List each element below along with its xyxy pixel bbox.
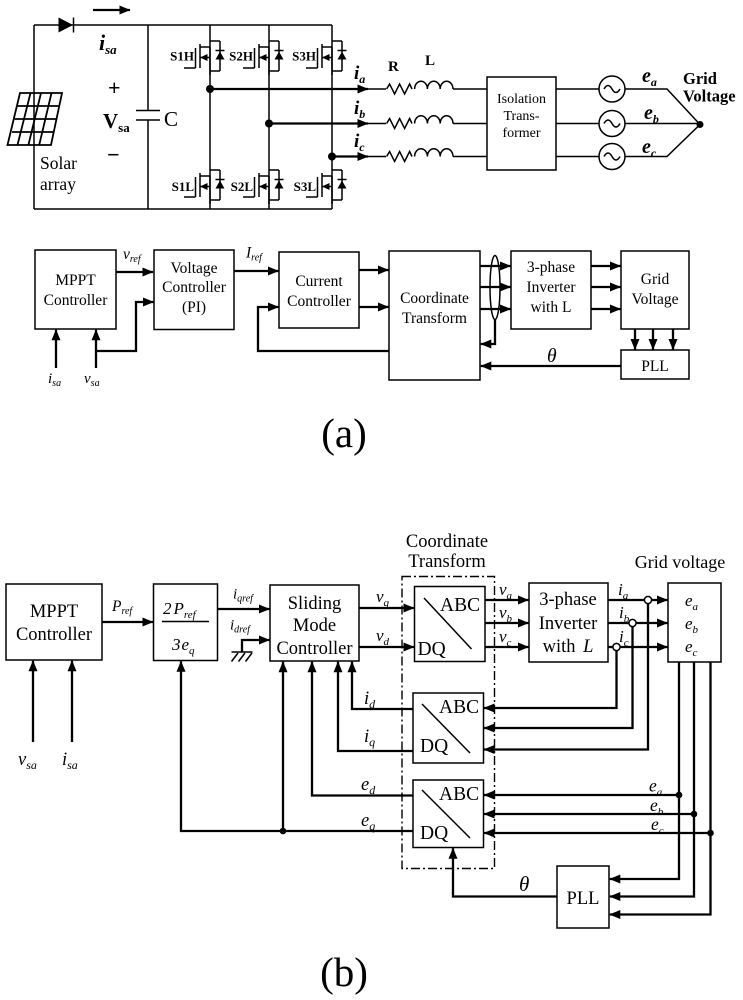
svg-text:Controller: Controller bbox=[162, 279, 227, 296]
svg-text:Coordinate: Coordinate bbox=[400, 290, 469, 307]
resistor phase a bbox=[387, 84, 412, 94]
svg-text:Controller: Controller bbox=[287, 293, 352, 310]
arrow MPPT to Voltage Controller bbox=[116, 271, 153, 273]
svg-text:ABC: ABC bbox=[439, 784, 479, 805]
svg-text:Pref: Pref bbox=[111, 598, 133, 617]
svg-text:Inverter: Inverter bbox=[539, 614, 598, 634]
svg-text:vb: vb bbox=[499, 603, 513, 625]
label i_sa bbox=[99, 30, 117, 57]
svg-text:θ: θ bbox=[547, 346, 557, 367]
AC source e_b bbox=[599, 111, 625, 137]
wire phase a with arrow bbox=[210, 88, 386, 90]
transistor S1H bbox=[184, 41, 225, 75]
transistor S1L bbox=[184, 170, 225, 204]
block 3-phase Inverter with L (a) bbox=[511, 251, 591, 329]
svg-text:S1L: S1L bbox=[172, 179, 195, 194]
svg-text:Trans-: Trans- bbox=[503, 109, 539, 124]
label R bbox=[388, 59, 399, 75]
svg-text:Iref: Iref bbox=[245, 245, 263, 264]
svg-text:iq: iq bbox=[364, 727, 375, 749]
label e_b (b) bbox=[650, 795, 664, 818]
arrow Grid Voltage to PLL 1 bbox=[634, 329, 636, 350]
wire source b to node bbox=[625, 123, 700, 125]
svg-text:with L: with L bbox=[531, 299, 572, 316]
node phase b bbox=[265, 120, 273, 128]
label i_sa (a) bbox=[48, 371, 61, 389]
svg-text:S2L: S2L bbox=[231, 179, 254, 194]
svg-text:PLL: PLL bbox=[641, 358, 669, 375]
label i_c (b) bbox=[619, 627, 629, 649]
label i_b (b) bbox=[619, 603, 630, 625]
node e_q branch bbox=[280, 828, 287, 835]
svg-text:Coordinate: Coordinate bbox=[406, 532, 488, 552]
arrow Current Controller to Coordinate Transform lower bbox=[359, 306, 389, 308]
svg-text:Grid: Grid bbox=[641, 271, 670, 288]
label L bbox=[425, 53, 435, 69]
transistor S3L bbox=[306, 170, 347, 204]
label i_sa (b) bbox=[62, 750, 78, 772]
wire: top rail bbox=[34, 24, 332, 26]
AC source e_c bbox=[599, 144, 625, 170]
svg-text:3-phase: 3-phase bbox=[539, 590, 597, 610]
svg-text:vq: vq bbox=[376, 587, 390, 609]
label v_q bbox=[376, 587, 390, 609]
wire: DC-link left vertical bbox=[33, 25, 35, 209]
label e_d bbox=[361, 775, 376, 797]
svg-text:eb: eb bbox=[685, 614, 699, 636]
label S2H bbox=[229, 49, 253, 64]
transistor S2L bbox=[243, 170, 284, 204]
wire i_c tap to ABC/DQ2 bbox=[484, 651, 617, 709]
wire c to transformer bbox=[453, 156, 487, 158]
svg-text:Vsa: Vsa bbox=[103, 109, 130, 135]
svg-text:Current: Current bbox=[295, 273, 343, 290]
svg-text:former: former bbox=[502, 126, 540, 141]
label i_a (b) bbox=[618, 580, 629, 602]
label C bbox=[164, 107, 178, 131]
svg-text:R: R bbox=[388, 59, 399, 75]
arrow v_sa input (a) bbox=[95, 330, 97, 368]
arrow Current Controller to Coordinate Transform upper bbox=[359, 269, 389, 271]
svg-text:ic: ic bbox=[354, 131, 365, 154]
arrow inverter to Grid Voltage b bbox=[591, 286, 621, 288]
dashed box Coordinate Transform (b) bbox=[402, 577, 495, 869]
svg-text:Transform: Transform bbox=[408, 552, 486, 572]
block 2Pref/3eq bbox=[154, 584, 218, 661]
wire transformer to source b bbox=[556, 123, 599, 125]
svg-text:DQ: DQ bbox=[420, 823, 448, 844]
svg-text:ec: ec bbox=[685, 637, 698, 659]
label v_sa (b) bbox=[18, 750, 37, 772]
svg-text:ABC: ABC bbox=[440, 595, 480, 616]
wire b to transformer bbox=[453, 123, 487, 125]
node grid bbox=[697, 121, 704, 128]
block PLL (a) bbox=[621, 350, 689, 379]
wire e_b to ABC/DQ3 bbox=[484, 813, 694, 815]
arrow Grid Voltage to PLL 3 bbox=[672, 329, 674, 350]
label e_a top bbox=[642, 65, 657, 89]
wire i_q to Sliding Mode bbox=[338, 662, 413, 751]
svg-text:Controller: Controller bbox=[276, 639, 352, 659]
block Grid voltage e_a e_b e_c bbox=[668, 583, 721, 662]
node e_c junction bbox=[707, 830, 714, 837]
inductor phase a bbox=[415, 81, 453, 89]
inductor phase c bbox=[415, 149, 453, 157]
arrow ABC/DQ1 to inverter v_a bbox=[485, 599, 529, 601]
arrow v_sa input (b) bbox=[32, 661, 34, 742]
arrow fraction to Sliding Mode i_qref bbox=[218, 608, 270, 610]
arrow inverter to Grid Voltage c bbox=[591, 308, 621, 310]
svg-text:vsa: vsa bbox=[84, 371, 100, 389]
label S2L bbox=[231, 179, 254, 194]
svg-text:iqref: iqref bbox=[233, 587, 254, 605]
svg-text:Isolation: Isolation bbox=[497, 92, 546, 107]
svg-text:S1H: S1H bbox=[170, 49, 194, 64]
svg-text:(PI): (PI) bbox=[182, 299, 206, 316]
label S3L bbox=[294, 179, 317, 194]
wire theta PLL to Coordinate Transform bbox=[481, 365, 621, 367]
svg-text:array: array bbox=[40, 174, 76, 194]
label e_q bbox=[361, 811, 375, 833]
svg-text:S2H: S2H bbox=[229, 49, 253, 64]
svg-text:Solar: Solar bbox=[40, 153, 77, 173]
arrow inverter to grid i_b bbox=[608, 622, 668, 624]
svg-text:θ: θ bbox=[519, 872, 529, 896]
svg-text:vref: vref bbox=[123, 246, 142, 265]
arrow Voltage to Current Controller bbox=[234, 270, 279, 272]
wire i_d to Sliding Mode bbox=[352, 662, 413, 709]
caption (b) bbox=[320, 949, 368, 995]
svg-text:L: L bbox=[425, 53, 435, 69]
svg-text:S3L: S3L bbox=[294, 179, 317, 194]
node phase a bbox=[206, 85, 214, 93]
svg-text:3eq: 3eq bbox=[171, 635, 195, 657]
label V_sa bbox=[103, 109, 130, 135]
label e_b top bbox=[644, 102, 659, 126]
arrow i_sa input (b) bbox=[71, 661, 73, 742]
label e_c top bbox=[642, 136, 657, 160]
diode D1 bbox=[59, 18, 74, 33]
label e_c (b) bbox=[651, 814, 664, 837]
label i_q bbox=[364, 727, 375, 749]
node phase c bbox=[328, 153, 336, 161]
wire e_q branch to Sliding Mode bbox=[282, 662, 284, 831]
wire i_b tap to ABC/DQ2 bbox=[484, 627, 633, 729]
label minus bbox=[107, 142, 120, 167]
wire: bottom rail bbox=[34, 208, 332, 210]
svg-text:eq: eq bbox=[361, 811, 375, 833]
wire e_d to Sliding Mode bbox=[312, 662, 413, 796]
svg-text:ia: ia bbox=[354, 63, 365, 86]
label v_sa (a) bbox=[84, 371, 100, 389]
label i_dref bbox=[230, 618, 251, 636]
arrow Coordinate Transform to inverter c bbox=[480, 308, 511, 310]
arrow Coordinate Transform to inverter b bbox=[480, 286, 511, 288]
block ABC/DQ 2 bbox=[413, 693, 484, 763]
block Voltage Controller (PI) bbox=[154, 250, 234, 330]
svg-text:Transform: Transform bbox=[402, 310, 467, 327]
block Isolation Transformer bbox=[487, 77, 556, 170]
node tap i_c bbox=[613, 643, 620, 650]
label Solar array bbox=[40, 153, 77, 194]
block ABC/DQ 1 bbox=[415, 587, 486, 662]
svg-text:C: C bbox=[164, 107, 178, 131]
wire transformer to source c bbox=[556, 156, 599, 158]
svg-text:MPPT: MPPT bbox=[55, 272, 96, 289]
svg-text:Controller: Controller bbox=[16, 625, 92, 645]
inductor phase b bbox=[415, 116, 453, 124]
svg-text:Grid: Grid bbox=[683, 69, 717, 88]
label i_b bbox=[354, 98, 365, 121]
label Grid voltage title bbox=[635, 552, 725, 572]
svg-text:eb: eb bbox=[644, 102, 659, 126]
wire source c to node bbox=[625, 125, 700, 157]
label i_a bbox=[354, 63, 365, 86]
svg-text:isa: isa bbox=[62, 750, 78, 772]
arrow Sliding Mode to ABC/DQ1 v_d bbox=[359, 646, 414, 648]
transistor S2H bbox=[243, 41, 284, 75]
svg-text:MPPT: MPPT bbox=[30, 602, 78, 622]
svg-text:S3H: S3H bbox=[292, 49, 316, 64]
label S1H bbox=[170, 49, 194, 64]
wire grid e_a down bbox=[610, 662, 679, 879]
ground symbol bbox=[232, 640, 270, 662]
svg-text:Grid voltage: Grid voltage bbox=[635, 552, 725, 572]
label S1L bbox=[172, 179, 195, 194]
svg-text:ed: ed bbox=[361, 775, 376, 797]
svg-text:3-phase: 3-phase bbox=[527, 259, 575, 276]
label Coordinate Transform (b) bbox=[406, 532, 488, 572]
transistor S3H bbox=[306, 41, 347, 75]
svg-text:+: + bbox=[108, 75, 121, 100]
svg-text:Sliding: Sliding bbox=[288, 594, 341, 614]
wire a to transformer bbox=[453, 88, 487, 90]
wire transformer to source a bbox=[556, 88, 599, 90]
label + bbox=[108, 75, 121, 100]
svg-text:Controller: Controller bbox=[44, 292, 109, 309]
label I_ref bbox=[245, 245, 263, 264]
resistor phase b bbox=[387, 119, 412, 129]
svg-text:with L: with L bbox=[543, 637, 594, 657]
arrow Sliding Mode to ABC/DQ1 v_q bbox=[359, 607, 414, 609]
svg-text:DQ: DQ bbox=[420, 736, 448, 757]
arrow MPPT to fraction block bbox=[102, 621, 153, 623]
label v_d bbox=[376, 626, 390, 648]
block Grid Voltage (a) bbox=[621, 251, 689, 329]
label theta (a) bbox=[547, 346, 557, 367]
label v_c bbox=[499, 627, 512, 649]
svg-text:idref: idref bbox=[230, 618, 251, 636]
svg-text:PLL: PLL bbox=[567, 889, 600, 909]
svg-text:ib: ib bbox=[619, 603, 630, 625]
svg-text:(a): (a) bbox=[321, 410, 367, 456]
svg-text:Inverter: Inverter bbox=[526, 279, 576, 296]
label v_b bbox=[499, 603, 513, 625]
arrow Grid Voltage to PLL 2 bbox=[652, 329, 654, 350]
arrow inverter to grid i_c bbox=[608, 646, 668, 648]
svg-text:isa: isa bbox=[99, 30, 117, 57]
label theta (b) bbox=[519, 872, 529, 896]
wire e_a to ABC/DQ3 bbox=[484, 794, 679, 796]
wire phase c with arrow bbox=[332, 155, 386, 157]
label v_a bbox=[499, 580, 513, 602]
svg-text:Voltage: Voltage bbox=[683, 87, 736, 106]
wire bus feedback to Coordinate Transform bbox=[481, 320, 495, 345]
svg-text:isa: isa bbox=[48, 371, 61, 389]
arrow i_sa input (a) bbox=[55, 330, 57, 368]
wire grid e_b down bbox=[610, 662, 694, 897]
svg-text:ib: ib bbox=[354, 98, 365, 121]
label i_d bbox=[364, 689, 376, 711]
label v_ref bbox=[123, 246, 142, 265]
caption (a) bbox=[321, 410, 367, 456]
block Current Controller (a) bbox=[279, 252, 359, 328]
svg-text:va: va bbox=[499, 580, 513, 602]
current direction arrow bbox=[93, 9, 130, 11]
svg-text:ea: ea bbox=[685, 591, 699, 613]
svg-text:ia: ia bbox=[618, 580, 629, 602]
label i_c bbox=[354, 131, 365, 154]
svg-text:2Pref: 2Pref bbox=[163, 599, 198, 621]
svg-text:Voltage: Voltage bbox=[170, 260, 217, 277]
node tap i_b bbox=[629, 619, 636, 626]
block Sliding Mode Controller bbox=[270, 585, 359, 661]
arrow Coordinate Transform to inverter a bbox=[480, 265, 511, 267]
svg-text:ABC: ABC bbox=[439, 697, 479, 718]
wire v_sa branch to Voltage Controller bbox=[96, 302, 154, 351]
block MPPT Controller (b) bbox=[6, 584, 102, 660]
node tap i_a bbox=[644, 596, 651, 603]
arrow inverter to grid i_a bbox=[608, 599, 668, 601]
svg-text:vsa: vsa bbox=[18, 750, 37, 772]
label P_ref bbox=[111, 598, 133, 617]
node e_b junction bbox=[691, 811, 698, 818]
bridge leg 2 wire bbox=[268, 25, 270, 209]
label e_a (b) bbox=[649, 776, 663, 799]
svg-text:ea: ea bbox=[642, 65, 657, 89]
bus ellipse bbox=[490, 256, 500, 320]
wire source a to node bbox=[625, 89, 700, 125]
block PLL (b) bbox=[557, 866, 609, 928]
svg-text:vc: vc bbox=[499, 627, 512, 649]
arrow ABC/DQ1 to inverter v_b bbox=[485, 622, 529, 624]
bridge leg 1 wire bbox=[209, 25, 211, 209]
svg-text:DQ: DQ bbox=[418, 639, 446, 660]
AC source e_a bbox=[599, 76, 625, 102]
capacitor C bbox=[136, 25, 160, 209]
block Coordinate Transform (a) bbox=[389, 251, 480, 380]
svg-text:id: id bbox=[364, 689, 376, 711]
svg-text:Voltage: Voltage bbox=[631, 291, 678, 308]
svg-text:vd: vd bbox=[376, 626, 390, 648]
wire phase b with arrow bbox=[269, 122, 386, 124]
arrow ABC/DQ1 to inverter v_c bbox=[485, 646, 529, 648]
svg-text:(b): (b) bbox=[320, 949, 368, 995]
wire e_q to fraction block bbox=[181, 661, 413, 831]
block ABC/DQ 3 bbox=[413, 780, 484, 848]
svg-text:Mode: Mode bbox=[293, 616, 336, 636]
wire feedback to Current Controller bbox=[258, 307, 389, 351]
label Grid Voltage bbox=[683, 69, 736, 106]
label i_qref bbox=[233, 587, 254, 605]
solar array panel bbox=[8, 93, 63, 145]
arrow inverter to Grid Voltage a bbox=[591, 265, 621, 267]
wire grid e_c down bbox=[610, 662, 711, 915]
wire theta PLL to ABC/DQ3 bbox=[453, 848, 557, 896]
wire i_a tap to ABC/DQ2 bbox=[484, 604, 648, 750]
wire e_c to ABC/DQ3 bbox=[484, 832, 711, 834]
label S3H bbox=[292, 49, 316, 64]
block 3-phase Inverter with L (b) bbox=[529, 583, 608, 662]
block MPPT Controller (a) bbox=[35, 250, 116, 329]
node e_a junction bbox=[676, 792, 683, 799]
resistor phase c bbox=[387, 152, 412, 162]
bridge leg 3 wire bbox=[331, 25, 333, 209]
svg-text:−: − bbox=[107, 142, 120, 167]
